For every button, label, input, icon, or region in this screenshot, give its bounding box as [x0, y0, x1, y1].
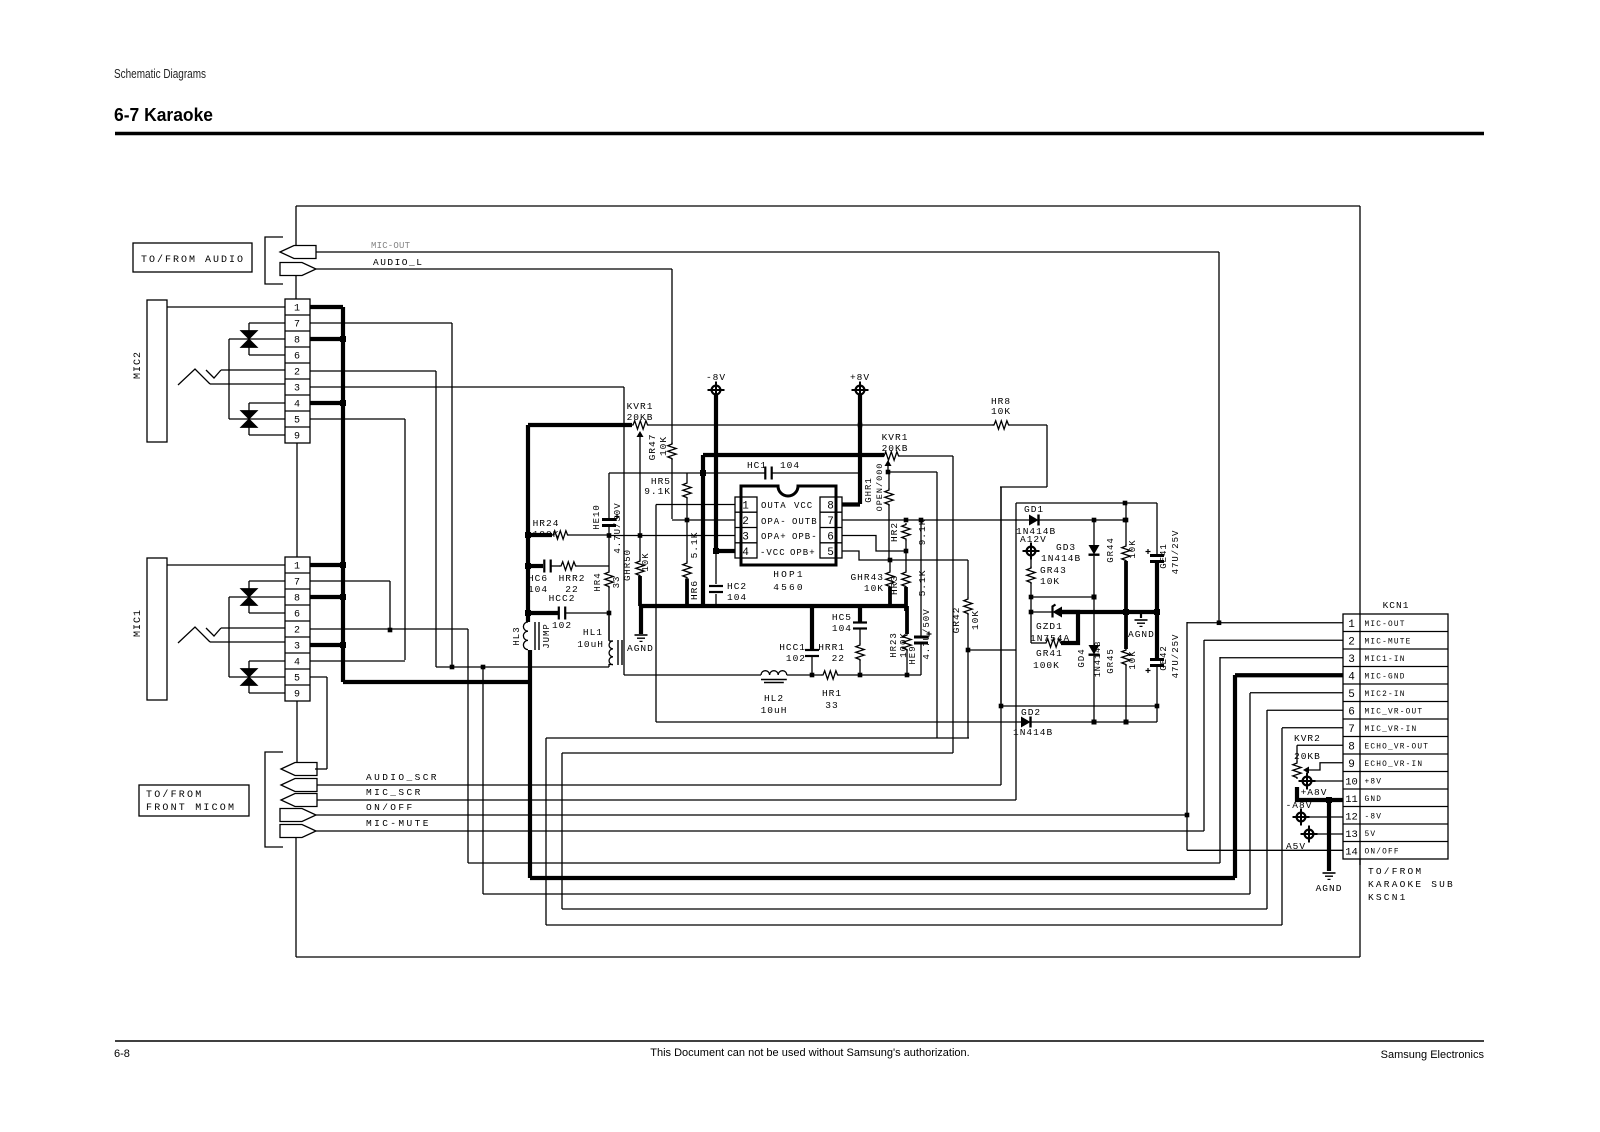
TO/FROM AUDIO box — [133, 243, 252, 272]
svg-text:GD1: GD1 — [1024, 504, 1044, 515]
arrow MIC-OUT — [280, 246, 316, 259]
wire MIC2 box top to AUDIO_L arrow — [295, 276, 297, 299]
svg-text:+8V: +8V — [1365, 778, 1383, 786]
svg-text:KCN1: KCN1 — [1383, 600, 1410, 611]
svg-text:3: 3 — [294, 642, 301, 653]
connector MIC2 switch S2 — [241, 411, 258, 420]
arrow MIC-MUTE — [280, 825, 316, 838]
svg-text:4560: 4560 — [773, 582, 805, 593]
svg-text:10: 10 — [1345, 776, 1358, 788]
svg-text:GD3: GD3 — [1056, 542, 1076, 553]
svg-text:8: 8 — [294, 594, 301, 605]
wire KCN1 below-table stub — [1359, 859, 1361, 865]
svg-text:HR23: HR23 — [889, 632, 899, 658]
svg-text:9.1K: 9.1K — [917, 519, 928, 546]
svg-text:ON/OFF: ON/OFF — [366, 802, 415, 813]
svg-text:GR47: GR47 — [647, 434, 658, 461]
svg-text:OPA+: OPA+ — [761, 532, 787, 542]
wire HR8 right step — [1010, 424, 1048, 426]
wire GD1 line — [1016, 519, 1125, 521]
svg-text:12: 12 — [1345, 811, 1358, 823]
capacitor HC6 104 — [528, 564, 543, 568]
wire MIC2 pin5 to MIC1 pin4 — [310, 418, 405, 420]
svg-text:2: 2 — [294, 368, 301, 379]
svg-text:AGND: AGND — [1316, 883, 1343, 894]
svg-text:HR24: HR24 — [533, 518, 560, 529]
svg-text:MIC2-IN: MIC2-IN — [1365, 691, 1406, 699]
thick analog bus y=606 — [640, 604, 907, 608]
wire KCN1 pin1 — [1187, 622, 1343, 624]
bracket audio — [265, 237, 283, 284]
svg-text:ECHO_VR-OUT: ECHO_VR-OUT — [1365, 743, 1430, 751]
wire KCN1 pin2 — [1204, 639, 1343, 641]
TO/FROM FRONT MICOM box — [139, 785, 249, 816]
svg-text:3: 3 — [742, 532, 750, 544]
svg-text:TO/FROM AUDIO: TO/FROM AUDIO — [141, 254, 245, 266]
svg-text:VCC: VCC — [794, 501, 813, 511]
svg-text:HC1: HC1 — [747, 460, 767, 471]
svg-text:MIC-OUT: MIC-OUT — [371, 241, 411, 251]
wire IC pin4 to -8V (thick) — [716, 549, 735, 553]
wire KVR2 bottom thick — [1297, 787, 1343, 800]
svg-text:1N414B: 1N414B — [1041, 553, 1081, 564]
svg-text:5: 5 — [1348, 689, 1355, 701]
wire AUDIO_SCR — [317, 784, 1001, 786]
resistor HR2 9.1K — [902, 523, 910, 541]
capacitor HE9 4.7U/50V — [920, 644, 922, 675]
resistor GHR50 10K — [639, 536, 641, 561]
svg-text:7: 7 — [294, 320, 301, 331]
svg-text:MIC_VR-OUT: MIC_VR-OUT — [1365, 708, 1424, 716]
resistor GR47 10K — [671, 425, 673, 444]
wire HE10 top — [608, 473, 610, 519]
wire MIC-MUTE — [316, 830, 1204, 832]
svg-text:MIC1: MIC1 — [133, 609, 144, 637]
wire echo return y=675 — [624, 674, 761, 676]
svg-text:JUMP: JUMP — [542, 623, 552, 649]
arrow spare (to MIC1 jack) — [281, 763, 317, 776]
wire MIC2 shield to MIC1 — [296, 443, 298, 557]
svg-text:4: 4 — [742, 547, 750, 559]
wire MIC-OUT — [316, 251, 1219, 253]
arrow AUDIO_SCR — [281, 779, 317, 792]
wire thick trunk down x=530 — [528, 650, 532, 878]
svg-text:HR2: HR2 — [889, 522, 900, 542]
diode GD2 1N4148 line — [656, 721, 1157, 723]
svg-text:100K: 100K — [533, 529, 560, 540]
op-amp HOP1 right pins — [820, 497, 842, 558]
svg-text:104: 104 — [780, 460, 800, 471]
svg-text:8: 8 — [294, 336, 301, 347]
svg-text:GHR43: GHR43 — [850, 572, 884, 583]
bracket front micom — [265, 752, 283, 847]
wire thick vcc rail y=455 — [703, 453, 884, 457]
wire AUDIO_L — [316, 268, 672, 270]
svg-text:GD4: GD4 — [1077, 648, 1087, 667]
svg-text:5: 5 — [294, 416, 301, 427]
svg-text:MIC1-IN: MIC1-IN — [1365, 656, 1406, 664]
ground AGND center — [639, 606, 643, 634]
svg-text:HR4: HR4 — [593, 572, 603, 591]
svg-text:10K: 10K — [991, 406, 1011, 417]
wire thick echo loop — [528, 423, 632, 427]
svg-text:1N414B: 1N414B — [1013, 727, 1053, 738]
svg-text:10K: 10K — [970, 610, 981, 630]
svg-text:TO/FROM: TO/FROM — [1368, 866, 1423, 877]
svg-text:9.1K: 9.1K — [644, 486, 671, 497]
svg-text:10uH: 10uH — [761, 705, 788, 716]
svg-text:1: 1 — [294, 304, 301, 315]
power A5V — [1305, 830, 1314, 839]
svg-text:KARAOKE SUB: KARAOKE SUB — [1368, 879, 1455, 890]
resistor GR42 10K — [967, 560, 969, 598]
svg-text:1: 1 — [294, 562, 301, 573]
connector KCN1 table — [1343, 614, 1448, 859]
resistor HR1 33 — [822, 671, 840, 679]
svg-text:AUDIO_SCR: AUDIO_SCR — [366, 772, 439, 783]
svg-text:HCC1: HCC1 — [779, 642, 806, 653]
svg-text:20KB: 20KB — [882, 443, 909, 454]
resistor HR6 5.1K — [686, 520, 688, 562]
svg-text:13: 13 — [1345, 829, 1358, 841]
wire IC pin3 — [609, 535, 735, 537]
svg-text:100K: 100K — [1033, 660, 1060, 671]
svg-text:11: 11 — [1345, 794, 1358, 806]
wire IC pin6 step — [842, 536, 906, 552]
svg-text:GR45: GR45 — [1106, 648, 1116, 674]
connector MIC2 jack tip switch — [206, 370, 221, 378]
svg-text:104: 104 — [528, 584, 548, 595]
ground AGND KCN1 — [1327, 800, 1331, 871]
svg-text:8: 8 — [1348, 741, 1355, 753]
svg-text:102: 102 — [786, 653, 806, 664]
svg-text:MIC_VR-IN: MIC_VR-IN — [1365, 726, 1418, 734]
svg-text:4.7U/50V: 4.7U/50V — [922, 608, 932, 659]
resistor GR44 10K — [1125, 503, 1127, 545]
wire pin14 feed — [1187, 849, 1343, 851]
inductor HL2 10uH — [761, 671, 787, 675]
svg-text:KVR1: KVR1 — [627, 401, 654, 412]
svg-text:7: 7 — [827, 516, 835, 528]
svg-text:33: 33 — [825, 700, 838, 711]
capacitor HCC1 102 — [810, 606, 814, 649]
svg-text:MIC-GND: MIC-GND — [1365, 673, 1406, 681]
svg-text:47U/25V: 47U/25V — [1171, 634, 1181, 679]
capacitor GE41 47U/25V electrolytic — [1156, 503, 1158, 554]
wire AUDIO_SCR link y=706 — [1001, 705, 1157, 707]
wire spare bus y=753 — [562, 752, 953, 754]
arrow MIC_SCR — [281, 794, 317, 807]
svg-text:6: 6 — [827, 532, 835, 544]
svg-text:GR41: GR41 — [1036, 648, 1063, 659]
wire MIC1 pin2 (MIC1-IN) — [310, 628, 468, 630]
svg-text:HC2: HC2 — [727, 581, 747, 592]
svg-text:10K: 10K — [658, 436, 669, 456]
wire MIC2 pin3 to KVR1 — [310, 386, 624, 388]
ground AGND right — [1140, 612, 1142, 618]
svg-text:TO/FROM: TO/FROM — [146, 789, 203, 801]
wire bottom border from MIC-MUTE — [295, 838, 297, 957]
resistor HR23 100K — [905, 606, 909, 634]
wire IC pin5 step — [842, 551, 968, 560]
svg-text:OUTB: OUTB — [792, 517, 818, 527]
svg-text:GR43: GR43 — [1040, 565, 1067, 576]
svg-text:14: 14 — [1345, 846, 1358, 858]
resistor HR3 5.1K — [905, 551, 907, 571]
wire MIC_VR-OUT bus y=909 — [561, 753, 563, 909]
svg-text:Samsung Electronics: Samsung Electronics — [1381, 1049, 1485, 1061]
capacitor GE42 47U/25V electrolytic — [1150, 658, 1164, 661]
svg-text:MIC2: MIC2 — [133, 351, 144, 379]
svg-text:2: 2 — [294, 626, 301, 637]
wire outer top border — [296, 205, 1360, 207]
wire MIC1 pin9 to arrow — [296, 701, 298, 763]
svg-text:7: 7 — [1348, 724, 1355, 736]
svg-text:FRONT MICOM: FRONT MICOM — [146, 803, 236, 814]
svg-text:10uH: 10uH — [577, 639, 604, 650]
resistor GHR1 OPEN/000 — [888, 472, 890, 489]
svg-text:ON/OFF: ON/OFF — [1365, 848, 1400, 856]
wire KCN1 pin3 — [1220, 657, 1343, 659]
footer rule — [115, 1040, 1484, 1042]
svg-text:A5V: A5V — [1286, 841, 1306, 852]
svg-text:GND: GND — [1365, 796, 1383, 804]
svg-text:HCC2: HCC2 — [549, 593, 576, 604]
op-amp HOP1 4560 body — [741, 486, 836, 565]
svg-text:6: 6 — [1348, 706, 1355, 718]
op-amp HOP1 left pins — [735, 497, 757, 558]
power +A8V — [1303, 777, 1312, 786]
svg-text:KVR2: KVR2 — [1294, 733, 1321, 744]
wire MIC1 pin7 — [310, 580, 390, 582]
wire MIC2-IN riser — [482, 667, 484, 894]
wire MIC-GND trunk (thick) — [341, 307, 345, 682]
svg-text:4: 4 — [294, 400, 301, 411]
svg-text:1N414B: 1N414B — [1093, 641, 1103, 678]
wire KVR1B wiper bus y=738 — [546, 737, 969, 739]
svg-text:GR44: GR44 — [1106, 537, 1116, 563]
svg-text:MIC_SCR: MIC_SCR — [366, 787, 423, 798]
connector MIC1 jack tip arm — [178, 627, 210, 643]
connector MIC1 jack tip switch — [206, 628, 221, 636]
wire IC pin8 to +8V (thick) — [842, 502, 860, 506]
potentiometer KVR1 (B) — [883, 452, 901, 460]
resistor HR24 100K — [528, 533, 552, 537]
svg-text:OPEN/000: OPEN/000 — [875, 463, 885, 512]
resistor GR41 100K — [1061, 612, 1078, 643]
connector MIC2 switch S1 — [241, 331, 258, 340]
wire GD3 GR43 node — [1031, 596, 1094, 598]
wire KCN1 pin8 — [1297, 744, 1343, 746]
svg-text:ECHO_VR-IN: ECHO_VR-IN — [1365, 761, 1424, 769]
svg-text:GZD1: GZD1 — [1036, 621, 1063, 632]
diode GD4 1N4148 — [1093, 597, 1095, 645]
resistor HRR2 22 — [551, 565, 560, 567]
connector MIC2 pin1 wire — [167, 306, 285, 308]
svg-text:AUDIO_L: AUDIO_L — [373, 257, 423, 268]
svg-text:10K: 10K — [1128, 539, 1138, 558]
svg-text:5: 5 — [827, 547, 835, 559]
svg-text:10K: 10K — [864, 583, 884, 594]
wire GR42 bottom — [968, 649, 1016, 651]
svg-text:MIC-OUT: MIC-OUT — [1365, 621, 1406, 629]
svg-text:OPB-: OPB- — [792, 532, 818, 542]
svg-text:102: 102 — [552, 620, 572, 631]
connector MIC1 switch S2 — [241, 669, 258, 678]
connector MIC1 body — [147, 558, 167, 700]
capacitor HC2 104 — [715, 551, 717, 584]
resistor GR43 10K — [1027, 567, 1035, 585]
diode GD3 1N4148 — [1093, 520, 1095, 545]
svg-text:4.7U/50V: 4.7U/50V — [613, 502, 623, 553]
svg-text:33: 33 — [612, 576, 622, 589]
wire KVR1B right — [900, 455, 954, 457]
svg-text:This Document can not be used: This Document can not be used without Sa… — [650, 1047, 969, 1059]
svg-text:20KB: 20KB — [1294, 751, 1321, 762]
svg-text:10K: 10K — [641, 552, 651, 571]
svg-text:HL1: HL1 — [583, 627, 603, 638]
svg-text:47U/25V: 47U/25V — [1171, 530, 1181, 575]
resistor HR5 9.1K — [683, 482, 691, 499]
svg-text:9: 9 — [294, 690, 301, 701]
svg-text:4: 4 — [294, 658, 301, 669]
svg-text:MIC-MUTE: MIC-MUTE — [366, 818, 431, 829]
header rule — [115, 132, 1484, 136]
svg-text:OPB+: OPB+ — [790, 548, 816, 558]
svg-text:HL3: HL3 — [512, 626, 522, 645]
svg-text:OUTA: OUTA — [761, 501, 787, 511]
wire MIC_VR-IN bus y=925 — [545, 738, 547, 925]
wire MIC_SCR — [317, 799, 1016, 801]
svg-text:104: 104 — [727, 592, 747, 603]
wire KVR1B wiper node — [886, 470, 891, 475]
svg-text:1: 1 — [1348, 619, 1355, 631]
wire MIC2 pin2 — [310, 370, 436, 372]
svg-text:6-7 Karaoke: 6-7 Karaoke — [114, 105, 213, 125]
svg-text:HOP1: HOP1 — [773, 569, 805, 580]
resistor HRR1 22 — [856, 644, 864, 662]
svg-text:GD2: GD2 — [1021, 707, 1041, 718]
potentiometer KVR1 (A) — [632, 421, 650, 429]
arrow AUDIO_L — [280, 263, 316, 276]
inductor HL3 JUMP — [523, 622, 528, 650]
svg-text:OPA-: OPA- — [761, 517, 787, 527]
diode zener GZD1 1N754A — [1031, 611, 1053, 613]
svg-text:2: 2 — [742, 516, 750, 528]
svg-text:8: 8 — [827, 501, 835, 513]
svg-text:HR6: HR6 — [689, 580, 700, 600]
svg-text:10K: 10K — [1128, 650, 1138, 669]
svg-text:HRR1: HRR1 — [818, 642, 845, 653]
svg-text:MIC-MUTE: MIC-MUTE — [1365, 638, 1412, 646]
wire MIC2 pin7 — [310, 322, 452, 324]
connector MIC1 pin1 wire — [167, 564, 285, 566]
svg-text:6: 6 — [294, 610, 301, 621]
connector MIC2 pin column — [285, 299, 310, 443]
svg-text:GHR50: GHR50 — [623, 549, 633, 581]
svg-text:HE10: HE10 — [592, 504, 602, 530]
capacitor HC5 104 — [858, 606, 862, 622]
svg-text:GR42: GR42 — [951, 607, 962, 634]
svg-text:GE41: GE41 — [1159, 543, 1169, 569]
wire KCN1 pin5 — [1250, 692, 1343, 694]
wire KCN1 pin7 — [1282, 727, 1343, 729]
wire KCN1 pin4 thick — [1235, 673, 1343, 677]
svg-text:-VCC: -VCC — [760, 548, 786, 558]
svg-text:22: 22 — [832, 653, 845, 664]
svg-text:+8V: +8V — [850, 372, 870, 383]
wire MIC2-IN bus y=893 — [483, 893, 1250, 895]
wire KCN1 pin9 to wiper — [1309, 763, 1343, 770]
capacitor HCC2 102 — [528, 611, 558, 615]
svg-text:9: 9 — [294, 432, 301, 443]
svg-text:10K: 10K — [1040, 576, 1060, 587]
svg-text:KSCN1: KSCN1 — [1368, 892, 1408, 903]
svg-text:-A8V: -A8V — [1286, 800, 1313, 811]
svg-text:KVR1: KVR1 — [882, 432, 909, 443]
wire IC pin1 out — [656, 504, 735, 506]
svg-text:AGND: AGND — [627, 643, 654, 654]
resistor GR45 10K — [1122, 649, 1130, 667]
wire IC pin7 line — [842, 519, 1016, 521]
svg-text:HE9: HE9 — [908, 645, 918, 664]
svg-text:3: 3 — [294, 384, 301, 395]
wire KCN1 pin6 — [1267, 709, 1343, 711]
resistor HR4 33 — [608, 535, 610, 571]
connector MIC1 switch S1 — [241, 589, 258, 598]
svg-text:A12V: A12V — [1020, 534, 1047, 545]
svg-text:4: 4 — [1348, 671, 1355, 683]
svg-text:HC5: HC5 — [832, 612, 852, 623]
resistor GHR43 10K — [889, 560, 891, 571]
svg-text:104: 104 — [832, 623, 852, 634]
connector MIC1 pin column — [285, 557, 310, 701]
svg-text:GE42: GE42 — [1159, 645, 1169, 671]
arrow ON/OFF — [280, 809, 316, 822]
wire MIC1 pin5 — [310, 676, 327, 678]
svg-text:HR1: HR1 — [822, 688, 842, 699]
wire pin1 riser — [1186, 622, 1188, 850]
svg-text:1: 1 — [742, 501, 750, 513]
wire MIC_SCR top edge — [1016, 502, 1157, 504]
wire MIC1-IN bus y=863 — [468, 862, 1220, 864]
svg-text:6: 6 — [294, 352, 301, 363]
svg-text:HRR2: HRR2 — [559, 573, 586, 584]
inductor HL1 10uH — [608, 613, 610, 641]
wire ON/OFF — [316, 814, 1187, 816]
capacitor HE10 4.7U/50V electrolytic — [602, 518, 616, 521]
svg-text:20KB: 20KB — [627, 412, 654, 423]
svg-text:3: 3 — [1348, 654, 1355, 666]
wire IC pin2 — [672, 519, 735, 521]
connector MIC2 jack tip arm — [178, 369, 210, 385]
svg-text:5.1K: 5.1K — [917, 570, 928, 597]
svg-text:HC6: HC6 — [528, 573, 548, 584]
svg-text:9: 9 — [1348, 759, 1355, 771]
svg-text:HL2: HL2 — [764, 693, 784, 704]
svg-text:7: 7 — [294, 578, 301, 589]
svg-text:-8V: -8V — [1365, 813, 1383, 821]
resistor HR8 10K — [993, 421, 1011, 429]
svg-text:5: 5 — [294, 674, 301, 685]
connector MIC2 body — [147, 300, 167, 442]
svg-text:Schematic Diagrams: Schematic Diagrams — [114, 67, 206, 81]
wire HL1 secondary node y=667 — [436, 666, 609, 668]
svg-text:+A8V: +A8V — [1301, 787, 1328, 798]
svg-text:5V: 5V — [1365, 831, 1377, 839]
thick A12V rail — [1062, 610, 1157, 614]
svg-text:6-8: 6-8 — [114, 1048, 130, 1060]
